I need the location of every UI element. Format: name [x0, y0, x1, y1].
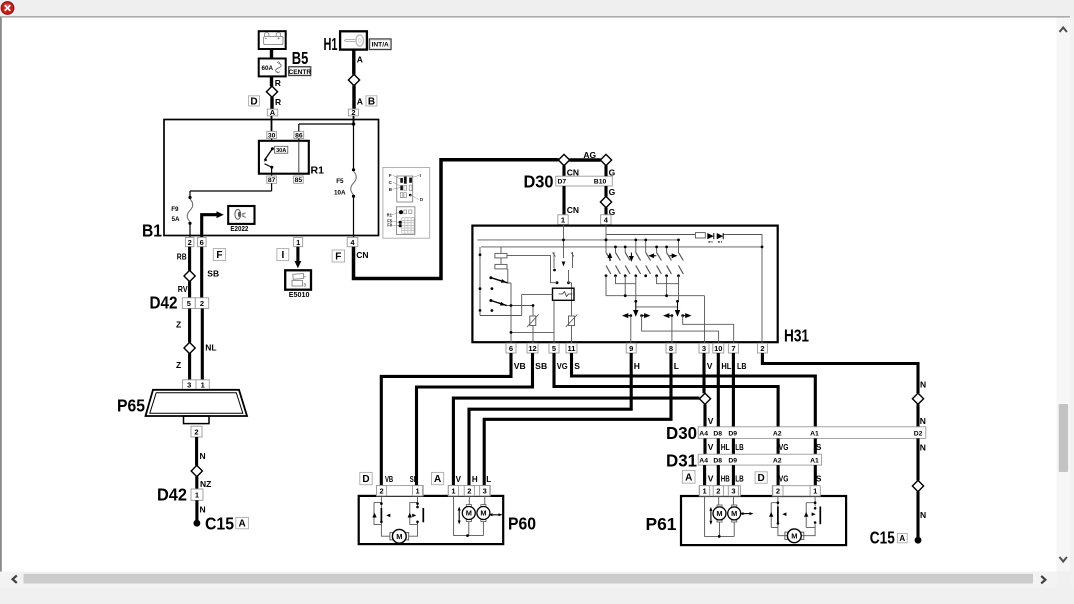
P61 mirror drive electronics	[771, 496, 815, 536]
svg-text:VB: VB	[385, 475, 393, 484]
svg-text:A1: A1	[810, 431, 819, 438]
svg-text:M: M	[731, 509, 737, 518]
svg-text:2: 2	[467, 486, 471, 495]
svg-text:1: 1	[201, 381, 205, 390]
splice connector	[600, 196, 611, 207]
instrument dimmer P65	[146, 380, 248, 424]
svg-text:D: D	[362, 474, 369, 485]
svg-text:M: M	[466, 509, 472, 518]
P61 positioning motors	[705, 496, 735, 536]
svg-text:A: A	[357, 97, 363, 107]
svg-text:2: 2	[716, 487, 720, 496]
svg-text:5: 5	[187, 299, 191, 308]
svg-text:3: 3	[483, 486, 487, 495]
svg-text:A: A	[685, 472, 692, 483]
svg-text:E2022: E2022	[230, 226, 248, 233]
svg-text:1: 1	[813, 487, 817, 496]
splice connector	[266, 86, 277, 97]
svg-text:HL: HL	[721, 361, 731, 371]
svg-text:VB: VB	[514, 361, 526, 371]
connector letter D	[755, 472, 767, 483]
svg-text:1: 1	[415, 486, 419, 495]
H31 array links	[606, 276, 705, 344]
wire VG	[554, 353, 778, 427]
svg-text:10A: 10A	[334, 190, 346, 197]
pin 85	[294, 176, 304, 183]
connector letter B	[366, 96, 377, 106]
wire CN	[562, 186, 565, 215]
svg-text:S: S	[574, 361, 580, 371]
svg-text:F9: F9	[387, 222, 393, 227]
pin 30	[267, 131, 277, 138]
battery B5	[259, 31, 286, 49]
H31 switch arrows	[608, 253, 676, 262]
svg-text:A4: A4	[699, 458, 708, 465]
fuse F5 10A	[334, 124, 356, 237]
svg-text:C15: C15	[205, 513, 234, 533]
H31 junctions	[562, 239, 763, 249]
svg-text:D31: D31	[666, 450, 697, 470]
wire N	[195, 500, 198, 520]
svg-text:CN: CN	[356, 250, 368, 260]
svg-text:A2: A2	[773, 458, 782, 465]
svg-text:A2: A2	[773, 431, 782, 438]
svg-text:P61: P61	[646, 514, 677, 534]
connector letter F	[213, 249, 225, 261]
svg-text:M: M	[396, 532, 402, 541]
connector letter A	[682, 470, 695, 483]
horn icon E2022	[228, 206, 254, 224]
svg-text:HL: HL	[721, 442, 730, 452]
H31 internal wiring left	[480, 283, 572, 344]
motor M (P61 mirror)	[785, 529, 804, 543]
svg-text:2: 2	[379, 486, 383, 495]
svg-text:N: N	[920, 443, 926, 453]
wire N	[195, 437, 198, 466]
wire SB	[200, 247, 203, 298]
svg-text:F: F	[216, 250, 222, 261]
wire RB	[188, 247, 191, 271]
svg-text:2: 2	[194, 427, 198, 436]
pin 2 (B1 bottom)	[185, 237, 194, 246]
svg-text:N: N	[920, 416, 926, 426]
svg-text:1: 1	[703, 487, 707, 496]
svg-text:SB: SB	[410, 475, 418, 484]
svg-text:60A: 60A	[262, 65, 274, 72]
H31 output arrows	[623, 301, 690, 317]
wire A	[352, 85, 355, 109]
svg-text:B: B	[368, 97, 375, 108]
wire N to C15	[916, 438, 919, 480]
wire	[353, 116, 355, 124]
svg-text:F: F	[389, 173, 392, 178]
fusebox B1	[164, 120, 379, 236]
wire Z	[188, 309, 191, 343]
svg-text:E5010: E5010	[289, 290, 310, 299]
svg-text:RB: RB	[177, 251, 187, 261]
splice connector	[558, 154, 569, 165]
lamp E5010	[285, 270, 311, 289]
wires D31 to P61	[705, 465, 816, 486]
svg-text:3: 3	[702, 344, 706, 353]
svg-text:F: F	[335, 252, 341, 263]
svg-text:M: M	[480, 509, 486, 518]
svg-text:9: 9	[629, 344, 633, 353]
svg-text:RV: RV	[178, 284, 188, 294]
svg-text:N: N	[200, 451, 206, 461]
svg-text:VG: VG	[557, 361, 568, 371]
svg-text:V: V	[456, 475, 462, 484]
svg-text:Z: Z	[176, 320, 181, 330]
H31 internal bus	[478, 225, 763, 344]
svg-text:I: I	[420, 173, 421, 178]
wire arrow to E5010	[296, 247, 299, 261]
pin A (B1)	[267, 109, 277, 116]
pin 2 (B1)	[348, 109, 358, 116]
P60 positioning motors	[454, 496, 485, 536]
wire	[270, 49, 273, 59]
wire labels above P61	[708, 474, 822, 484]
svg-text:R: R	[275, 97, 281, 107]
wire R	[270, 97, 273, 109]
wire N	[916, 491, 919, 537]
svg-text:2: 2	[188, 238, 192, 247]
wire Z	[188, 353, 191, 379]
svg-text:AG: AG	[583, 150, 596, 160]
wire AG	[569, 158, 600, 162]
H31 turn/hazard switch array	[606, 240, 683, 274]
connector letter I	[277, 249, 289, 261]
svg-text:D42: D42	[157, 485, 187, 505]
svg-text:F9: F9	[171, 206, 179, 213]
pin 4 (H31)	[601, 215, 611, 225]
H31 lighting switch	[479, 247, 508, 312]
H31 resistors	[495, 247, 557, 283]
svg-text:7: 7	[731, 344, 735, 353]
H31 rheostat sensors	[527, 315, 577, 328]
splice connector N	[912, 480, 923, 491]
wire HL	[717, 353, 720, 427]
svg-text:F5: F5	[336, 178, 344, 185]
wire G	[604, 165, 607, 176]
wire NL	[201, 309, 204, 380]
svg-text:S: S	[816, 474, 822, 484]
H31 ignition contact	[553, 252, 575, 316]
svg-text:H: H	[472, 475, 478, 484]
svg-text:SB: SB	[535, 361, 547, 371]
svg-text:D30: D30	[666, 423, 697, 443]
wire NZ	[195, 476, 198, 489]
door mirror P60	[359, 496, 504, 544]
svg-text:G: G	[609, 187, 616, 197]
svg-text:SB: SB	[207, 268, 219, 278]
svg-text:A: A	[434, 474, 441, 485]
fuse F9 5A	[171, 196, 193, 225]
splice connector	[191, 465, 202, 476]
wire S	[572, 353, 816, 427]
svg-text:A: A	[357, 55, 363, 65]
ground C15 right	[915, 537, 922, 544]
wire CN	[562, 165, 565, 176]
svg-text:INT/A: INT/A	[372, 42, 389, 49]
H31 diodes	[695, 233, 723, 242]
wire	[189, 224, 191, 237]
svg-text:1: 1	[195, 490, 199, 499]
svg-text:C15: C15	[870, 527, 895, 547]
wire RV	[188, 281, 191, 297]
wire H	[469, 353, 631, 486]
splice connector	[348, 74, 359, 85]
svg-text:86: 86	[295, 132, 303, 139]
svg-text:8: 8	[669, 344, 673, 353]
splice connector N	[912, 393, 923, 404]
svg-text:12: 12	[528, 344, 536, 353]
motor M (P60 mirror)	[390, 529, 409, 543]
wire to E2022	[202, 215, 217, 238]
svg-text:HB: HB	[721, 474, 730, 484]
svg-text:87: 87	[268, 177, 276, 184]
splice connector V	[699, 393, 710, 404]
wire labels between D30-D31	[708, 416, 926, 453]
svg-text:VG: VG	[779, 474, 789, 484]
fusebox layout inset	[383, 168, 430, 239]
svg-text:L: L	[674, 361, 679, 371]
svg-text:30: 30	[268, 132, 276, 139]
svg-text:D8: D8	[713, 431, 722, 438]
svg-text:R: R	[275, 78, 281, 88]
svg-text:NL: NL	[205, 343, 216, 353]
wire G	[604, 186, 607, 197]
svg-text:H1: H1	[324, 34, 338, 54]
svg-text:P65: P65	[117, 396, 145, 416]
pin 2 (P65)	[191, 426, 202, 437]
svg-text:N: N	[920, 510, 926, 520]
svg-text:1: 1	[296, 238, 300, 247]
wire G	[604, 207, 607, 214]
svg-text:D30: D30	[524, 172, 554, 192]
wire L	[484, 353, 671, 486]
wire V	[702, 353, 705, 393]
pin 86	[294, 131, 304, 138]
instrument cluster H31	[472, 226, 777, 343]
svg-text:D42: D42	[150, 293, 178, 313]
svg-text:6: 6	[509, 344, 513, 353]
top bar	[0, 0, 1074, 16]
svg-text:NZ: NZ	[200, 479, 211, 489]
svg-text:LB: LB	[735, 474, 744, 484]
pin 1 (H31)	[558, 215, 568, 225]
svg-text:M: M	[791, 532, 797, 541]
svg-text:P60: P60	[508, 514, 536, 534]
H31 output wiring	[631, 316, 734, 344]
close button	[1, 2, 14, 15]
svg-text:B10: B10	[594, 179, 607, 186]
wire N from H31	[762, 353, 918, 393]
wire LB	[732, 353, 735, 427]
svg-text:V: V	[708, 474, 714, 484]
svg-text:N: N	[920, 379, 926, 389]
svg-text:D9: D9	[728, 458, 737, 465]
svg-text:6: 6	[200, 238, 204, 247]
horizontal scrollbar	[0, 572, 1057, 589]
svg-text:2: 2	[760, 344, 764, 353]
svg-text:H: H	[634, 361, 640, 371]
connector letter D	[360, 472, 372, 484]
svg-text:CENTR: CENTR	[288, 69, 311, 76]
svg-text:3: 3	[731, 487, 735, 496]
svg-text:3: 3	[187, 381, 191, 390]
label INT/A	[369, 39, 391, 50]
svg-text:B1: B1	[142, 221, 162, 241]
svg-text:LB: LB	[737, 361, 747, 371]
svg-text:V: V	[707, 361, 713, 371]
svg-text:2: 2	[200, 299, 204, 308]
svg-text:B5: B5	[292, 48, 309, 68]
label CENTR	[288, 67, 311, 76]
svg-text:A4: A4	[699, 431, 708, 438]
svg-text:D2: D2	[914, 431, 923, 438]
svg-text:A1: A1	[810, 458, 819, 465]
wire	[299, 123, 354, 125]
connector letter D	[249, 96, 260, 106]
svg-text:1: 1	[451, 486, 455, 495]
svg-text:1: 1	[561, 215, 565, 224]
connector letter A	[432, 472, 444, 484]
door mirror P61	[681, 496, 846, 545]
P61 pin strip right	[772, 486, 818, 496]
svg-text:D: D	[250, 97, 257, 108]
pin 6	[197, 237, 206, 246]
wire labels below H31	[514, 361, 747, 371]
ignition switch H1	[324, 31, 367, 54]
svg-text:LB: LB	[735, 442, 744, 452]
wire	[271, 183, 273, 191]
svg-text:V: V	[708, 416, 714, 426]
ground C15	[194, 520, 201, 527]
svg-text:85: 85	[295, 177, 303, 184]
H31 flasher unit	[553, 288, 575, 300]
relay R1	[259, 139, 309, 176]
splice connector	[600, 154, 611, 165]
wire A	[352, 50, 355, 75]
svg-text:10: 10	[714, 344, 722, 353]
svg-text:V: V	[708, 442, 714, 452]
svg-text:5: 5	[552, 344, 556, 353]
svg-text:L: L	[486, 475, 491, 484]
svg-text:M: M	[716, 509, 722, 518]
svg-text:5A: 5A	[172, 216, 181, 223]
wire R	[270, 76, 273, 86]
wires D30 to D31	[705, 438, 815, 454]
svg-text:A: A	[899, 534, 905, 543]
connector letter F	[332, 250, 345, 262]
svg-text:G: G	[609, 167, 616, 177]
P60 mirror drive electronics	[374, 496, 418, 536]
vertical scrollbar	[1057, 18, 1071, 572]
P60 pin strip right	[448, 486, 490, 496]
svg-text:H31: H31	[784, 326, 809, 346]
wire CN feed	[354, 160, 559, 279]
splice connector	[184, 270, 195, 281]
svg-text:CN: CN	[567, 205, 579, 215]
P61 pin strip left	[699, 486, 740, 496]
svg-text:VG: VG	[779, 442, 789, 452]
wire N	[916, 404, 919, 427]
junction	[352, 122, 356, 126]
wire VB	[381, 353, 511, 486]
svg-text:R1: R1	[311, 165, 325, 177]
svg-text:A: A	[238, 519, 245, 530]
svg-text:11: 11	[568, 344, 576, 353]
P60 pin strip left	[377, 486, 424, 496]
fuse 60A (B5)	[259, 59, 286, 77]
svg-text:A: A	[270, 108, 276, 117]
splice connector	[184, 342, 195, 353]
svg-text:2: 2	[776, 487, 780, 496]
svg-text:I: I	[281, 250, 284, 261]
pin 87	[267, 176, 277, 183]
wire labels P60	[385, 475, 491, 484]
svg-text:D9: D9	[728, 431, 737, 438]
wire	[271, 116, 273, 131]
svg-text:30A: 30A	[276, 148, 286, 154]
H31 bottom pins	[506, 343, 767, 353]
svg-text:D7: D7	[558, 179, 567, 186]
svg-text:D: D	[758, 473, 765, 484]
svg-text:Z: Z	[176, 360, 181, 370]
svg-text:2: 2	[351, 108, 355, 117]
pin 4	[347, 237, 358, 246]
wire SB	[417, 353, 533, 486]
svg-text:D8: D8	[713, 458, 722, 465]
pin 1	[294, 237, 303, 246]
